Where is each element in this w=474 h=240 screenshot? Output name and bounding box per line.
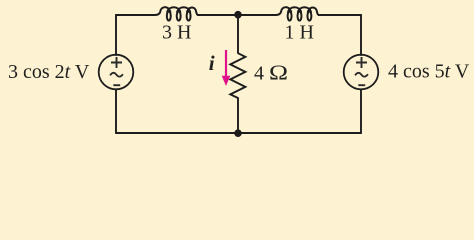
source V1 minus sign [113,84,120,86]
source V1 plus sign [111,57,122,68]
wire top-left segment [116,14,155,16]
source V1 sine [110,73,123,77]
wire middle branch lower [237,98,239,133]
current arrow i [222,50,231,86]
wire top-right segment [319,14,361,16]
wire right branch upper [360,15,362,55]
wire bottom-left segment [116,132,238,134]
svg-text:3 cos 2t V: 3 cos 2t V [8,61,90,83]
wire middle branch upper [237,15,239,53]
inductor L2 coil [276,7,319,20]
wire right branch lower [360,90,362,134]
svg-text:Ω: Ω [269,61,288,85]
svg-text:4 cos 5t V: 4 cos 5t V [388,61,470,83]
source V2 sine [355,73,368,77]
source V1 circle [99,55,134,90]
wire top-middle segment (node A to L2) [238,14,276,16]
wire top-middle segment (L1 to node A) [198,14,238,16]
wire bottom-right segment [238,132,361,134]
svg-text:1 H: 1 H [285,22,314,44]
resistor R 4ohm zigzag [230,53,245,98]
source V2 plus sign [356,57,367,68]
source V2 minus sign [358,84,365,86]
svg-text:i: i [209,51,215,75]
node A (top junction dot) [234,11,242,19]
wire left branch lower [115,90,117,134]
source V2 circle [344,55,379,90]
inductor L1 coil [155,7,198,20]
svg-text:4: 4 [254,63,264,85]
svg-text:3 H: 3 H [162,22,191,44]
node B (bottom junction dot) [234,129,242,137]
wire left branch upper [115,15,117,55]
